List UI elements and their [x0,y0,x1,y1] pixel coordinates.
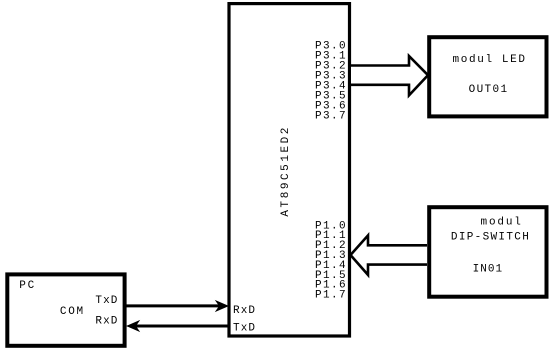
wire U1 TxD to PC RxD [131,325,229,328]
bus arrow DIP-SWITCH module to U1 P1 [351,235,428,275]
svg-text:IN01: IN01 [473,264,503,276]
svg-text:OUT01: OUT01 [469,84,508,96]
PC box [7,274,124,345]
svg-text:modul: modul [481,217,521,229]
arrowhead at U1 RxD [215,300,229,312]
module LED box [429,37,546,116]
svg-text:modul LED: modul LED [453,54,526,66]
svg-text:TxD: TxD [95,295,117,307]
svg-text:PC: PC [19,280,34,292]
svg-text:P1.7: P1.7 [315,290,346,302]
svg-text:RxD: RxD [233,305,255,317]
svg-text:RxD: RxD [95,316,117,328]
svg-text:AT89C51ED2: AT89C51ED2 [280,128,292,217]
svg-text:TxD: TxD [233,323,255,335]
svg-text:P3.7: P3.7 [315,111,346,123]
arrowhead at PC RxD [126,320,140,332]
wire PC TxD to U1 RxD [124,304,224,307]
module DIP-SWITCH box [429,207,546,297]
svg-text:DIP-SWITCH: DIP-SWITCH [451,232,529,244]
bus arrow U1 P3 to LED module [351,56,428,95]
svg-text:COM: COM [60,306,83,318]
microcontroller U1 box [229,4,350,336]
